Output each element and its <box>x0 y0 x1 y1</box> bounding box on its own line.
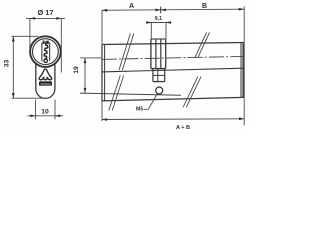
cylinder body (front view, narrow housing with round bottom) <box>36 62 55 98</box>
body top edge <box>102 43 244 45</box>
arrow top-right <box>239 8 244 11</box>
division tick <box>160 7 162 14</box>
right end face inner step <box>240 43 242 98</box>
logo bar lettering <box>41 83 51 86</box>
arrow top-left <box>102 9 107 12</box>
logo A emblem <box>39 69 52 80</box>
arrow 33 bottom <box>12 93 15 98</box>
plug face inner circle <box>33 39 59 65</box>
arrow A+B right <box>239 117 244 120</box>
cam lower block center <box>157 69 159 82</box>
extension line 10 right <box>54 100 56 120</box>
mid edge (bottom of round section) <box>102 68 244 72</box>
arrow 10 left (outside) <box>30 114 35 117</box>
svg-text:M5: M5 <box>136 107 143 113</box>
arrow at division (left side) <box>156 8 161 11</box>
right end face <box>242 43 244 98</box>
keyway flank right <box>49 42 51 61</box>
dim line 33 (vertical) <box>12 36 14 98</box>
arrow A+B left <box>102 118 107 121</box>
keyway head right ear <box>46 41 48 44</box>
extension line 33 top <box>12 35 39 37</box>
svg-text:A + B: A + B <box>176 125 190 130</box>
svg-text:33: 33 <box>3 60 10 68</box>
dim line A+B <box>102 118 244 121</box>
extension line Ø17 left <box>29 18 31 49</box>
left end face <box>101 45 103 101</box>
svg-text:A: A <box>129 3 134 10</box>
dim line 9,1 <box>146 22 171 24</box>
extension line 9,1 left <box>150 23 152 39</box>
arrow 9,1 right (outside) <box>166 21 171 24</box>
extension line A+B left (full height) <box>101 10 103 121</box>
cam lower block left <box>152 69 154 82</box>
extension line 19 top <box>80 57 102 59</box>
M5 leader line <box>144 94 158 110</box>
cam step line <box>151 68 166 70</box>
arrow Ø17 right <box>56 17 61 20</box>
cam housing left wall <box>150 39 152 69</box>
M5 screw hole <box>156 87 163 94</box>
dim line 10 <box>28 115 64 117</box>
arrow 19 bottom <box>84 88 87 93</box>
cam inner-right wall <box>160 39 162 69</box>
dim line Ø17 <box>26 17 65 19</box>
dim line 19 (vertical) <box>84 58 86 93</box>
bottom rounding tangent edge / 19-dim lower extension <box>80 93 181 95</box>
logo text bar <box>39 81 52 85</box>
arrow 10 right (outside) <box>55 114 60 117</box>
extension line 10 left <box>35 100 37 120</box>
extension line Ø17 right <box>60 18 62 72</box>
extension line 9,1 right <box>165 23 167 39</box>
extension line 33 bottom <box>12 97 47 99</box>
keyway profile squiggle <box>44 42 48 59</box>
body bottom edge <box>102 97 244 101</box>
break mark upper-right <box>195 33 210 58</box>
dim line A/B (top) <box>102 9 244 10</box>
arrow Ø17 left <box>30 17 35 20</box>
extension line A+B right (full height) <box>243 6 245 125</box>
svg-text:19: 19 <box>73 66 80 74</box>
arrow 9,1 left (outside) <box>146 21 151 24</box>
cam inner-left wall <box>155 39 157 69</box>
left end face inner step <box>104 45 106 101</box>
keyway flank left <box>41 43 43 62</box>
cam housing right wall <box>165 39 167 69</box>
plug face outer circle <box>30 36 61 67</box>
break mark lower-right <box>183 76 201 107</box>
break mark upper-left <box>119 33 134 70</box>
svg-text:B: B <box>202 3 207 10</box>
svg-text:Ø 17: Ø 17 <box>37 8 53 17</box>
arrow 33 top <box>12 36 15 41</box>
svg-text:9,1: 9,1 <box>155 16 162 22</box>
arrow 19 top <box>84 58 87 63</box>
cam lower block bottom <box>153 81 165 83</box>
center axis line (dash-dot) <box>102 56 244 59</box>
svg-text:10: 10 <box>41 109 49 116</box>
arrow at division (right side) <box>161 8 166 11</box>
cam lower block right <box>164 69 166 82</box>
keyway head left ear <box>43 41 45 45</box>
keyway bottom hook <box>44 59 47 62</box>
cam lower block divider <box>153 74 165 76</box>
break mark lower-left <box>109 75 124 110</box>
cam housing top <box>151 38 166 40</box>
